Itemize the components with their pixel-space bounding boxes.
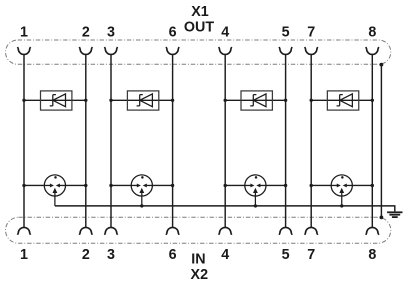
svg-text:6: 6 — [169, 25, 177, 41]
svg-text:8: 8 — [368, 247, 376, 263]
svg-text:X1: X1 — [191, 4, 209, 20]
svg-text:8: 8 — [368, 25, 376, 41]
svg-text:1: 1 — [20, 25, 28, 41]
svg-text:4: 4 — [221, 247, 229, 263]
svg-text:7: 7 — [307, 25, 315, 41]
svg-text:6: 6 — [169, 247, 177, 263]
svg-text:1: 1 — [20, 247, 28, 263]
svg-text:3: 3 — [107, 247, 115, 263]
svg-text:IN: IN — [191, 252, 205, 268]
svg-text:5: 5 — [282, 25, 290, 41]
svg-text:2: 2 — [82, 25, 90, 41]
svg-text:X2: X2 — [191, 267, 209, 283]
svg-text:2: 2 — [82, 247, 90, 263]
svg-text:OUT: OUT — [184, 19, 214, 35]
svg-text:4: 4 — [221, 25, 229, 41]
svg-text:3: 3 — [107, 25, 115, 41]
svg-text:5: 5 — [282, 247, 290, 263]
svg-text:7: 7 — [307, 247, 315, 263]
